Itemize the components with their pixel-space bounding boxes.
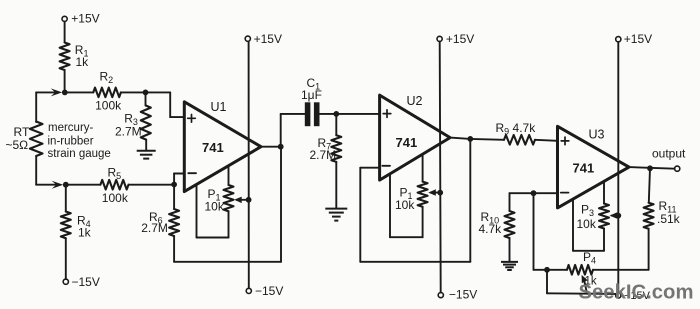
wire to node B with arrow xyxy=(36,184,59,186)
wire U2 feedback xyxy=(360,167,379,169)
svg-text:output: output xyxy=(652,146,686,160)
op-amp U3 741 triangle xyxy=(558,126,630,208)
svg-text:1k: 1k xyxy=(78,226,92,240)
node J junction xyxy=(544,267,550,273)
resistor R4 1k xyxy=(65,185,67,212)
svg-text:741: 741 xyxy=(573,161,595,176)
wire U2 power line xyxy=(440,41,441,292)
U2 minus sign xyxy=(382,165,390,167)
wire node D to U1 minus input xyxy=(173,174,175,185)
wire left vertical lower xyxy=(35,156,37,185)
resistor R10 4.7k xyxy=(510,192,534,194)
node C junction xyxy=(143,90,149,96)
svg-text:P3: P3 xyxy=(581,203,594,219)
node F junction xyxy=(333,111,339,117)
svg-text:2.7M: 2.7M xyxy=(141,221,168,235)
svg-text:−15V: −15V xyxy=(72,275,100,289)
svg-text:U1: U1 xyxy=(211,100,227,114)
node I junction (U3 out) xyxy=(647,165,653,171)
U3 plus sign xyxy=(561,140,569,142)
svg-text:U3: U3 xyxy=(589,128,605,142)
resistor R6 2.7M xyxy=(173,185,175,210)
resistor R11 .51k xyxy=(649,168,650,202)
wire node H to U3 minus input xyxy=(534,192,558,194)
resistor R9 4.7k xyxy=(470,138,504,141)
svg-text:−15V: −15V xyxy=(449,287,477,301)
svg-text:R9 4.7k: R9 4.7k xyxy=(496,121,537,137)
potentiometer P1 (U2) 10k xyxy=(389,174,391,237)
ground G1 xyxy=(137,150,156,152)
wire U1 feedback bottom xyxy=(174,261,281,263)
wire node F to U2 plus input xyxy=(336,113,379,115)
P4 wiper short to -15V rail xyxy=(546,270,548,294)
svg-text:−15V: −15V xyxy=(255,284,283,298)
svg-text:strain gauge: strain gauge xyxy=(48,148,111,160)
wire C1 to node F xyxy=(320,113,337,115)
svg-text:R5: R5 xyxy=(108,165,122,181)
svg-text:1μF: 1μF xyxy=(301,88,322,102)
U3 minus sign xyxy=(561,192,569,194)
svg-text:P4: P4 xyxy=(583,250,596,266)
svg-text:+15V: +15V xyxy=(254,32,282,46)
wire left vertical upper xyxy=(35,92,37,122)
terminal +15V (T3) xyxy=(437,36,442,41)
terminal +15V (T4) xyxy=(616,37,621,42)
wire U3 power line xyxy=(617,42,619,293)
potentiometer P4 1k xyxy=(547,269,567,271)
svg-text:~5Ω: ~5Ω xyxy=(6,138,29,152)
ground G3 xyxy=(501,261,518,263)
P1 (U2) wiper to -15V line xyxy=(431,192,441,194)
wire U1 feedback vertical xyxy=(280,147,282,262)
op-amp U2 741 triangle xyxy=(380,95,451,180)
svg-text:741: 741 xyxy=(202,140,224,155)
node G junction (U2 out) xyxy=(467,136,473,142)
node D junction xyxy=(171,182,177,188)
svg-text:+15V: +15V xyxy=(446,32,474,46)
wire node C to U1 plus input xyxy=(146,91,171,93)
svg-text:R2: R2 xyxy=(100,70,114,86)
svg-text:U2: U2 xyxy=(407,94,423,108)
resistor R7 2.7M xyxy=(335,114,337,135)
svg-text:1k: 1k xyxy=(76,55,90,69)
node H junction (U3 minus) xyxy=(531,190,537,196)
svg-text:10k: 10k xyxy=(205,199,225,213)
wire R1 to node A xyxy=(64,70,66,92)
svg-text:741: 741 xyxy=(396,135,418,150)
wire T1 to R1 xyxy=(64,22,66,43)
wire node E up to C1 xyxy=(280,114,282,147)
svg-text:RT: RT xyxy=(14,125,30,139)
wire U1 output xyxy=(261,146,281,148)
terminal output xyxy=(675,166,680,171)
potentiometer P3 10k xyxy=(572,199,574,251)
node A junction xyxy=(62,90,68,96)
P1 (U1) wiper to -15V line xyxy=(237,199,249,201)
wire U2 output xyxy=(450,138,470,139)
U2 plus sign xyxy=(383,113,391,115)
terminal -15V (U1) xyxy=(246,288,251,293)
resistor R3 2.7M xyxy=(145,92,147,105)
svg-text:100k: 100k xyxy=(102,191,129,205)
node B junction xyxy=(63,182,69,188)
svg-text:SeekIC.com: SeekIC.com xyxy=(579,281,694,303)
svg-text:2.7M: 2.7M xyxy=(115,125,142,139)
svg-text:10k: 10k xyxy=(395,198,415,212)
svg-text:in-rubber: in-rubber xyxy=(48,136,94,148)
wire U3 minus node down xyxy=(533,193,535,270)
svg-text:mercury-: mercury- xyxy=(48,122,94,134)
resistor R2 100k xyxy=(65,91,94,93)
ground G2 xyxy=(325,208,347,210)
wire node A left with arrow xyxy=(36,91,58,93)
node E junction (U1 out) xyxy=(278,144,284,150)
svg-text:100k: 100k xyxy=(95,99,122,113)
wire U1 power line xyxy=(248,41,250,288)
svg-text:2.7M: 2.7M xyxy=(310,148,337,162)
resistor R5 100k xyxy=(66,184,101,186)
capacitor C1 1uF xyxy=(305,102,311,126)
terminal +15V (T2) xyxy=(245,36,250,41)
svg-text:4.7k: 4.7k xyxy=(479,222,503,236)
U1 minus sign xyxy=(188,172,196,174)
terminal -15V (R4) xyxy=(63,279,68,284)
wire U3 output xyxy=(629,167,675,169)
svg-text:.51k: .51k xyxy=(657,212,681,226)
op-amp U1 741 triangle xyxy=(184,102,261,192)
terminal -15V (U3) xyxy=(616,293,621,298)
svg-text:+15V: +15V xyxy=(624,32,652,46)
terminal +15V (T1) xyxy=(62,16,67,21)
svg-text:10k: 10k xyxy=(577,217,597,231)
strain gauge RT ~5ohm xyxy=(30,122,43,157)
U1 plus sign xyxy=(188,117,196,119)
terminal -15V (U2) xyxy=(438,293,443,298)
P3 wiper to -15V line xyxy=(612,215,619,217)
potentiometer P1 (U1) 10k xyxy=(196,185,198,238)
svg-text:+15V: +15V xyxy=(71,12,99,26)
resistor R1 1k xyxy=(60,43,70,71)
